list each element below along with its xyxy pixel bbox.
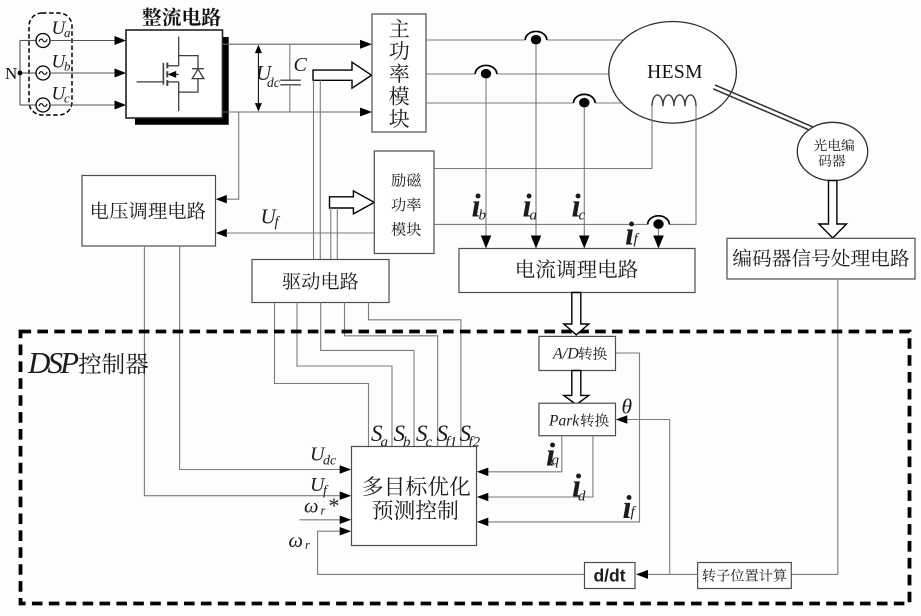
wire phase b to HESM (right) bbox=[497, 73, 609, 75]
encoder signal processing box 编码器信号处理电路 bbox=[727, 238, 915, 279]
Udc arrow bottom head bbox=[255, 103, 262, 112]
label 转子位置计算 bbox=[703, 569, 787, 582]
label 编码器信号处理电路 bbox=[733, 249, 909, 267]
drive circuit box 驱动电路 bbox=[252, 260, 389, 303]
Park transform box Park转换 bbox=[539, 403, 616, 436]
label 光电编 (encoder line1) bbox=[814, 139, 854, 152]
wire drive to excitation arrow 1 bbox=[330, 208, 332, 260]
wire field winding left terminal bbox=[434, 106, 652, 168]
DSP controller dashed boundary bbox=[21, 332, 910, 604]
label 率 bbox=[390, 64, 409, 83]
label 模 bbox=[389, 86, 409, 105]
wire phase to rectifier bbox=[50, 40, 116, 42]
svg-text:a: a bbox=[530, 208, 538, 224]
differentiator box d/dt bbox=[585, 563, 636, 589]
capacitor C bottom lead bbox=[289, 85, 291, 112]
svg-text:q: q bbox=[552, 453, 560, 469]
svg-text:N: N bbox=[5, 64, 17, 83]
arrowhead Uf into voltage conditioner bbox=[216, 229, 227, 237]
arrowhead into d/dt bbox=[636, 570, 648, 579]
rectifier box shadow bbox=[135, 37, 229, 125]
shaft double line HESM to encoder bbox=[713, 85, 813, 131]
wire N to Ub bbox=[20, 72, 36, 74]
wire drive to excitation arrow 2 bbox=[336, 208, 338, 260]
label 块 bbox=[389, 109, 409, 128]
wire field winding right terminal (left part) bbox=[669, 106, 696, 224]
svg-text:HESM: HESM bbox=[647, 62, 703, 83]
wire phase to rectifier bbox=[50, 104, 116, 106]
svg-text:r: r bbox=[321, 504, 326, 518]
svg-text:r: r bbox=[305, 538, 310, 552]
arrowhead ia into current conditioner bbox=[531, 236, 541, 249]
svg-text:A/D: A/D bbox=[552, 346, 579, 363]
wire N to Ua bbox=[20, 40, 36, 42]
main power module box 主功率模块 bbox=[372, 14, 426, 132]
current sensor ic bbox=[574, 94, 596, 103]
label 多目标优化 bbox=[363, 476, 470, 496]
label 励磁 bbox=[392, 173, 421, 187]
wire phase c to HESM (left) bbox=[426, 102, 574, 104]
wire ic sense line bbox=[583, 108, 585, 236]
label rectifier title 整流电路 bbox=[142, 7, 220, 26]
svg-text:DSP: DSP bbox=[27, 345, 79, 380]
voltage conditioning box 电压调理电路 bbox=[82, 176, 216, 247]
svg-text:dc: dc bbox=[323, 454, 337, 469]
wire Sb drive line bbox=[297, 303, 392, 447]
arrowhead if into current conditioner bbox=[653, 236, 664, 249]
svg-text:c: c bbox=[64, 91, 70, 106]
arrowhead if into controller bbox=[477, 518, 489, 527]
wire phase to rectifier bbox=[50, 72, 116, 74]
arrowhead omega_r into controller bbox=[340, 527, 352, 536]
AC source Uc bbox=[36, 98, 50, 112]
wire drive to main-power arrow 1 bbox=[313, 80, 315, 259]
three-phase source dashed enclosure bbox=[29, 13, 72, 115]
wire DC bus bottom bbox=[223, 111, 361, 113]
arrowhead id into controller bbox=[477, 493, 489, 501]
label 模块 bbox=[391, 222, 421, 236]
label 驱动电路 bbox=[283, 272, 359, 290]
label 功率 bbox=[392, 197, 421, 211]
label 码器 (encoder line2) bbox=[818, 154, 845, 166]
capacitor C plates bbox=[280, 80, 301, 84]
arrowhead DC+ into main power module bbox=[360, 40, 372, 49]
wire phase a to HESM (right) bbox=[547, 39, 624, 41]
wire omega_r feedback bbox=[318, 531, 585, 574]
wire phase a to HESM (left) bbox=[426, 39, 525, 41]
svg-text:c: c bbox=[579, 208, 586, 224]
svg-text:d/dt: d/dt bbox=[593, 565, 625, 585]
svg-text:ω: ω bbox=[304, 496, 318, 518]
hollow arrow drive bus to main power module bbox=[313, 62, 372, 88]
arrowhead into rectifier bbox=[115, 101, 127, 110]
Udc measurement arrow bbox=[257, 50, 259, 106]
wire if sense line bbox=[658, 229, 660, 236]
AC source Ub bbox=[36, 66, 50, 80]
arrowhead into rectifier bbox=[115, 69, 127, 78]
MOSFET body arrow bbox=[168, 71, 176, 78]
current sensor if bbox=[648, 216, 670, 225]
arrowhead ic into current conditioner bbox=[579, 236, 590, 249]
wire DC tap to voltage conditioner bbox=[227, 112, 239, 199]
wire voltage conditioner out Udc bbox=[180, 246, 340, 470]
svg-text:C: C bbox=[294, 54, 308, 76]
wire N to Uc bbox=[20, 104, 36, 106]
predictive control box 多目标优化预测控制 bbox=[352, 447, 477, 546]
arrowhead Udc into controller bbox=[340, 465, 352, 474]
arrowhead Uf into controller bbox=[340, 491, 352, 500]
svg-text:ω: ω bbox=[289, 530, 303, 552]
wire Sa drive line bbox=[275, 303, 369, 447]
arrowhead DC- into main power module bbox=[360, 108, 372, 117]
arrowhead theta into Park bbox=[616, 415, 628, 424]
svg-text:b: b bbox=[64, 59, 71, 74]
current conditioning box 电流调理电路 bbox=[459, 249, 695, 293]
svg-text:Park: Park bbox=[548, 412, 580, 429]
wire ib sense line bbox=[485, 79, 487, 236]
A/D conversion box A/D转换 bbox=[539, 336, 616, 370]
hollow arrow current conditioner to A/D bbox=[564, 293, 589, 335]
label 转换 (Park) bbox=[581, 413, 609, 426]
Udc arrow top head bbox=[255, 45, 262, 54]
excitation power module box 励磁功率模块 bbox=[374, 151, 434, 254]
node N junction dot bbox=[18, 71, 23, 76]
svg-text:*: * bbox=[329, 493, 340, 518]
photoelectric encoder circle bbox=[797, 122, 867, 180]
rotor position calculation box 转子位置计算 bbox=[698, 563, 792, 589]
svg-text:b: b bbox=[479, 208, 487, 224]
arrowhead speed ref into controller bbox=[340, 516, 352, 525]
capacitor C top lead bbox=[289, 44, 291, 80]
arrowhead iq into controller bbox=[477, 468, 489, 477]
wire Sf2 drive line bbox=[369, 303, 461, 447]
svg-text:dc: dc bbox=[267, 75, 280, 90]
wire Sf1 drive line bbox=[345, 303, 438, 447]
wire field return through if sensor bbox=[434, 223, 648, 225]
AC source Ua bbox=[36, 34, 50, 48]
label 预测控制 bbox=[373, 500, 458, 520]
current sensor ia bbox=[525, 31, 547, 40]
transistor (rectifier MOSFET with body diode) bbox=[137, 37, 204, 112]
wire drive to main-power arrow 2 bbox=[319, 80, 321, 259]
arrowhead into rectifier bbox=[115, 36, 127, 45]
label 电流调理电路 bbox=[517, 259, 637, 278]
wire iq from Park to controller bbox=[488, 436, 562, 472]
label 功 bbox=[390, 41, 409, 60]
current sensor ib bbox=[475, 65, 497, 74]
svg-text:d: d bbox=[578, 489, 586, 505]
svg-text:θ: θ bbox=[622, 395, 633, 419]
wire Uf from excitation module bbox=[227, 232, 374, 234]
wire speed reference bbox=[299, 519, 340, 521]
HESM field winding coil bbox=[652, 95, 696, 106]
wire rotor position to d/dt bbox=[648, 573, 698, 575]
wire ia sense line bbox=[535, 45, 537, 236]
hollow arrow encoder to signal processing bbox=[819, 181, 847, 239]
label 电压调理电路 bbox=[92, 202, 205, 220]
label 主 (main power module line1) bbox=[390, 19, 409, 37]
rectifier box 整流电路 bbox=[126, 30, 223, 118]
hollow arrow A/D to Park bbox=[564, 371, 589, 405]
wire voltage conditioner out Uf bbox=[144, 246, 340, 496]
wire Sc drive line bbox=[321, 303, 414, 447]
label 转换 (A/D) bbox=[579, 347, 607, 360]
arrowhead into voltage conditioning circuit bbox=[216, 195, 227, 204]
svg-text:a: a bbox=[64, 25, 71, 40]
hollow arrow to excitation power module bbox=[330, 191, 375, 214]
HESM machine ellipse bbox=[609, 22, 737, 124]
label 控制器 bbox=[79, 353, 148, 375]
wire theta from rotor position bbox=[627, 420, 670, 575]
wire phase b to HESM (left) bbox=[426, 73, 475, 75]
wire DC bus top bbox=[223, 43, 361, 45]
wire neutral bus bbox=[19, 41, 21, 106]
wire if from A/D to controller bbox=[488, 353, 640, 522]
wire id from Park to controller bbox=[488, 436, 593, 497]
wire phase c to HESM (right) bbox=[595, 102, 622, 104]
wire encoder signal to rotor position calc bbox=[792, 279, 838, 574]
arrowhead ib into current conditioner bbox=[481, 236, 491, 249]
